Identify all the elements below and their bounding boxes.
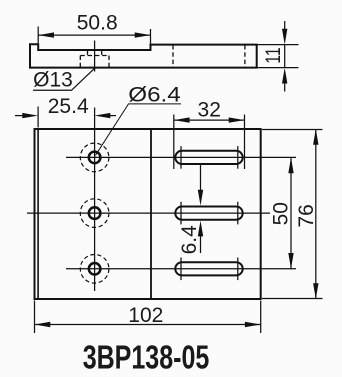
svg-text:11: 11	[262, 47, 285, 64]
svg-text:Ø6.4: Ø6.4	[128, 83, 181, 106]
svg-text:102: 102	[128, 304, 163, 327]
svg-text:6.4: 6.4	[178, 225, 201, 255]
svg-text:3BP138-05: 3BP138-05	[83, 339, 210, 376]
svg-text:50: 50	[269, 202, 292, 225]
svg-text:76: 76	[295, 204, 318, 227]
svg-text:Ø13: Ø13	[33, 69, 73, 92]
svg-text:25.4: 25.4	[48, 95, 89, 118]
svg-text:32: 32	[198, 98, 221, 121]
svg-text:50.8: 50.8	[77, 12, 118, 35]
